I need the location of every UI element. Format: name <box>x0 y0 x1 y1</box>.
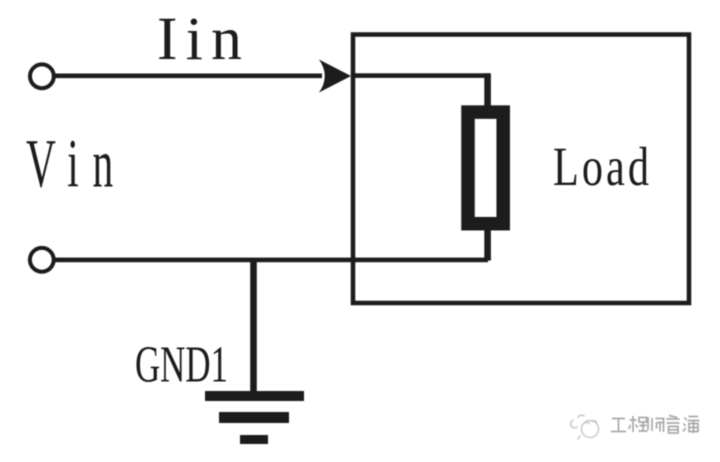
wire ground stub <box>250 258 257 393</box>
label GND1 <box>135 334 228 393</box>
wire top: Vin terminal to load box <box>55 74 322 79</box>
label Load <box>553 136 652 198</box>
svg-text:Load: Load <box>553 136 652 198</box>
char 工 <box>611 419 626 432</box>
char 程 <box>629 416 648 432</box>
svg-text:Vin: Vin <box>26 126 127 202</box>
ground bar 1 <box>205 391 304 401</box>
label Vin <box>26 126 127 202</box>
char 海 <box>683 417 700 434</box>
watermark logo doodle <box>571 415 599 439</box>
svg-text:GND1: GND1 <box>135 334 228 393</box>
wire bottom return <box>54 258 488 263</box>
wire load top stub <box>484 73 491 106</box>
svg-text:Iin: Iin <box>157 5 250 73</box>
char 师 <box>648 417 665 432</box>
wire inside box: left edge to load top corner <box>352 73 490 78</box>
load box enclosure <box>353 35 689 304</box>
ground bar 3 <box>240 435 268 444</box>
arrow head Iin current direction <box>319 60 351 93</box>
watermark text 工程师看海 <box>611 416 700 434</box>
label Iin <box>157 5 250 73</box>
wire load bottom stub <box>484 226 491 261</box>
resistor load symbol <box>468 112 503 224</box>
node Vin top terminal <box>30 64 54 88</box>
char 看 <box>667 416 680 434</box>
node Vin bottom terminal <box>30 248 54 272</box>
ground bar 2 <box>219 412 289 423</box>
